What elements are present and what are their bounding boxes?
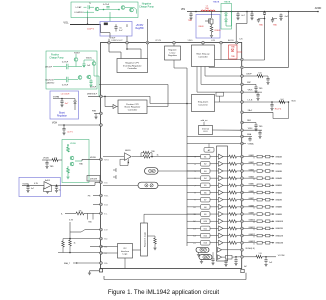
block: Negative CPV Inverting Regulator Controller	[117, 59, 148, 73]
svg-text:10: 10	[193, 207, 195, 209]
svg-text:Boost Regulator: Boost Regulator	[125, 106, 141, 109]
svg-text:L/CAP/DC: L/CAP/DC	[74, 11, 84, 14]
arrow vdd_int	[203, 122, 205, 126]
gamma row 7 resistor	[223, 198, 241, 201]
diode D1	[104, 23, 108, 25]
gamma row 10 pin	[241, 220, 244, 223]
wire stepup lx	[215, 44, 241, 59]
wire cp hook	[125, 8, 136, 14]
svg-text:VCOM: VCOM	[278, 255, 285, 257]
gamma row 7 filter C	[266, 198, 270, 201]
wire VGMA right	[244, 143, 247, 145]
capacitor Cosc1	[211, 252, 214, 265]
label L2 red	[61, 93, 70, 95]
resistor Rosc	[153, 238, 156, 250]
svg-text:L/R,G/P: L/R,G/P	[45, 67, 53, 69]
gamma row 13 pin	[241, 241, 244, 244]
label VINS	[187, 40, 193, 42]
gamma row 13 out label	[275, 242, 283, 245]
gamma row 2 out label	[275, 163, 282, 166]
pin VGH (left, y=125)	[100, 124, 103, 127]
gamma row 7 filter R	[257, 198, 266, 201]
gamma row 2 shunt tick	[253, 164, 255, 166]
DAC oval wide	[138, 182, 158, 188]
svg-text:0.47uF: 0.47uF	[62, 85, 69, 87]
box AP trim	[204, 144, 214, 153]
gamma buffer U2	[219, 161, 224, 166]
gamma row 4 out arrow	[270, 177, 274, 179]
blue box: main boost power stage	[196, 15, 220, 39]
gamma row 12 out arrow	[270, 235, 274, 237]
svg-text:Linear: Linear	[170, 51, 176, 54]
wire logic to reg	[133, 249, 141, 251]
svg-text:Boost: Boost	[59, 112, 65, 115]
capacitor C1	[114, 24, 117, 31]
label C11/C12 values	[74, 6, 84, 14]
gamma row 1 out label	[275, 155, 282, 158]
wire SA0 long	[63, 238, 100, 240]
gamma row 6 input box	[201, 190, 211, 195]
pin TST (left, y=253)	[100, 252, 103, 255]
gamma row 7 out label	[275, 198, 282, 201]
wire stepdown in	[103, 96, 192, 103]
gamma row 1 filter R	[257, 155, 266, 158]
pin EPAD (left bottom square)	[99, 269, 102, 272]
gamma row 10 wire to buffer	[210, 220, 218, 222]
gamma row 9 input box	[201, 212, 211, 217]
gamma row 1 output wire	[244, 156, 257, 158]
wire AVDD pin feed	[236, 12, 247, 42]
capacitor Cosc3	[234, 256, 237, 265]
svg-text:SA0: SA0	[104, 238, 107, 241]
svg-text:VIN: VIN	[181, 7, 185, 11]
svg-text:2n2: 2n2	[280, 99, 283, 101]
label VGMA	[248, 143, 255, 146]
gamma row 5 output wire	[244, 184, 257, 186]
gamma row 13 output wire	[244, 242, 257, 244]
label Rset red	[275, 108, 282, 111]
svg-text:GMA6B: GMA6B	[275, 191, 282, 194]
capacitor C61	[26, 185, 29, 193]
wire cp to VGL rail	[87, 11, 89, 25]
wire right pin 130 vdd_int	[244, 128, 263, 130]
gamma row 5 filter R	[257, 184, 266, 187]
label VDDA	[245, 247, 255, 250]
transistor Q51	[70, 156, 74, 160]
arrow stubs cp in	[84, 7, 87, 12]
pin PGND square	[241, 269, 244, 272]
label DRN/VGLP	[111, 40, 123, 42]
wire right pin 84 FB	[244, 82, 257, 84]
svg-text:Controller: Controller	[127, 67, 137, 70]
wire VGH to pin	[58, 124, 100, 126]
op-amp A403 VCOM	[44, 182, 52, 189]
svg-text:9: 9	[194, 200, 195, 202]
gamma row 8 input wire	[187, 206, 201, 208]
gamma row 12 filter R	[257, 234, 266, 237]
svg-text:G7: G7	[204, 200, 207, 202]
gamma row 3 label GMA3	[249, 168, 254, 171]
transistor Q11	[95, 7, 99, 11]
wire HVDD to pin	[82, 159, 100, 161]
svg-text:4u7: 4u7	[65, 103, 69, 105]
svg-text:Positive CPV: Positive CPV	[126, 103, 139, 106]
label TBD/B green	[224, 2, 231, 4]
gamma row 4 input box	[201, 176, 211, 181]
capacitor C34	[89, 79, 92, 87]
svg-text:1uF: 1uF	[87, 65, 91, 67]
label LX/BST	[155, 40, 161, 42]
gamma row 2 wire to buffer	[210, 163, 218, 165]
label 1uF vcom	[269, 262, 273, 264]
wire poscpv in	[104, 96, 113, 107]
gamma row 3 pin	[241, 170, 244, 173]
osc DAC oval B	[199, 255, 212, 260]
label 1SUP	[110, 38, 116, 40]
wire ground return	[104, 273, 246, 280]
svg-text:GMA5B: GMA5B	[275, 184, 282, 187]
wire i2c scl	[101, 252, 118, 254]
gamma buffer U5	[219, 183, 224, 188]
svg-text:TBD: TBD	[259, 25, 264, 27]
gamma row 13 pin number	[193, 243, 195, 245]
svg-text:10uF*2: 10uF*2	[87, 29, 95, 31]
gamma row 5 shunt tick	[253, 185, 255, 187]
resistor Rvcom	[256, 253, 262, 258]
svg-text:13: 13	[193, 228, 195, 230]
svg-text:15: 15	[193, 243, 195, 245]
capacitor C23	[257, 18, 265, 23]
block: Positive CPV Boost Regulator Controller	[118, 100, 147, 114]
gamma row 6 filter R	[257, 191, 266, 194]
svg-text:GMA10B: GMA10B	[275, 220, 283, 223]
caption Figure 1	[108, 289, 220, 296]
gamma row 3 input box	[201, 169, 211, 174]
label C21 4u7	[241, 15, 245, 17]
label 0u1 C25	[285, 16, 289, 18]
label 4u7 red C41	[65, 103, 69, 105]
block: Main Step-up Controller	[192, 45, 215, 67]
gamma row 3 wire to buffer	[210, 170, 218, 172]
label TBD/B blue	[213, 2, 220, 4]
svg-text:TBD: TBD	[188, 20, 193, 22]
svg-text:IL: IL	[61, 213, 64, 215]
svg-text:Negative: Negative	[168, 49, 177, 52]
gamma row 8 resistor	[223, 205, 241, 208]
gamma row 13 wire to buffer	[210, 242, 218, 244]
gamma row 10 filter R	[257, 220, 266, 223]
switch ILIM	[70, 230, 100, 232]
label TBD ref	[259, 126, 263, 128]
label 0.47uF c32	[62, 85, 69, 87]
capacitor C42 VGH	[62, 125, 65, 135]
wire stepdown out	[215, 101, 241, 103]
svg-text:Inverting Regulator: Inverting Regulator	[123, 64, 142, 67]
buffer poscpv	[113, 105, 117, 109]
svg-text:4u7: 4u7	[31, 188, 34, 190]
label VDDIN	[22, 183, 29, 185]
label 10uF red	[87, 29, 95, 31]
gamma row 2 resistor	[223, 162, 241, 165]
gamma row 9 pin	[241, 213, 244, 216]
wire stepup drv staircase 3	[201, 67, 241, 85]
label TBD mid	[79, 164, 84, 166]
wire vcom fb	[44, 185, 52, 191]
gamma row 6 out arrow	[270, 192, 274, 194]
transistor Q32	[78, 75, 82, 79]
gamma row 1 wire to buffer	[210, 156, 218, 158]
gamma row 10 output wire	[244, 220, 257, 222]
gamma row 4 out label	[275, 177, 282, 180]
block: Step-down Converter	[192, 95, 215, 112]
svg-text:G6: G6	[204, 192, 207, 194]
capacitor Cvddi	[258, 130, 261, 138]
svg-text:TBD: TBD	[259, 126, 263, 128]
label 1uF c33	[87, 65, 91, 67]
capacitor C33	[82, 60, 94, 67]
gamma buffer U12	[219, 233, 224, 238]
svg-text:GMA9B: GMA9B	[275, 213, 282, 216]
feedback loop rect	[273, 102, 289, 119]
svg-text:14: 14	[193, 236, 195, 238]
svg-text:VDD/C: VDD/C	[86, 58, 93, 60]
svg-text:GMA: GMA	[247, 133, 252, 136]
gamma row 3 out arrow	[270, 170, 274, 172]
pin right y=67.4	[241, 66, 244, 69]
svg-text:G12: G12	[203, 235, 207, 237]
transistor Q12	[121, 6, 125, 10]
gamma row 9 label GMA9	[249, 211, 254, 214]
gamma row 8 out label	[275, 206, 282, 209]
gamma row 11 pin	[241, 227, 244, 230]
svg-text:GMA8B: GMA8B	[275, 206, 282, 209]
pin VIN (top)	[173, 41, 176, 44]
gamma row 2 label GMA2	[249, 161, 254, 164]
blue box: VCOM buffer	[19, 177, 60, 196]
svg-text:GMA11B: GMA11B	[275, 227, 283, 230]
svg-text:vdd_int: vdd_int	[201, 119, 208, 122]
svg-text:7: 7	[194, 185, 195, 187]
wire cp2 out	[94, 76, 100, 96]
pin right y=84.4	[241, 83, 244, 86]
svg-text:0.47uF: 0.47uF	[62, 62, 69, 64]
svg-text:K5867: K5867	[74, 52, 81, 54]
pin LXB (top)	[220, 41, 223, 44]
svg-text:0.47uF: 0.47uF	[103, 4, 110, 6]
svg-text:TBD/B: TBD/B	[213, 2, 220, 4]
gamma row 4 label GMA4	[249, 176, 254, 179]
gamma buffer U4	[219, 176, 224, 181]
gamma row 10 input box	[201, 219, 211, 224]
ground osc A	[197, 252, 200, 256]
label 1uF C62	[58, 190, 60, 192]
gamma row 2 pin number	[194, 164, 195, 166]
gamma row 2 input box	[201, 161, 211, 166]
wire SA1 stub	[90, 246, 100, 248]
svg-text:Regulator: Regulator	[57, 115, 67, 118]
gamma row 12 input wire	[187, 235, 201, 237]
svg-text:VGL: VGL	[63, 21, 69, 25]
svg-text:G13: G13	[203, 243, 207, 245]
wire stepup in1	[202, 43, 204, 46]
gamma row 1 pin number	[194, 157, 195, 159]
DAC oval VCOM	[145, 168, 159, 175]
wire box2 to pin VGL	[108, 39, 110, 41]
resistor Rstrap2	[62, 239, 65, 253]
svg-text:SCL: SCL	[104, 213, 108, 215]
svg-text:HVDD: HVDD	[104, 159, 110, 161]
svg-text:GMA4B: GMA4B	[275, 177, 282, 180]
comp osc B out	[222, 255, 241, 259]
red network: OVP divider	[229, 45, 238, 59]
gamma row 5 out arrow	[270, 184, 274, 186]
svg-text:GMA13B: GMA13B	[275, 242, 283, 245]
svg-text:47k: 47k	[78, 210, 81, 212]
gamma row 13 input wire	[187, 242, 201, 244]
svg-text:0.47uF: 0.47uF	[90, 87, 97, 89]
capacitor Cgma	[248, 137, 251, 142]
svg-text:12: 12	[193, 221, 195, 223]
label VDD/C	[86, 58, 93, 60]
svg-text:TBD: TBD	[79, 164, 84, 166]
svg-text:TST: TST	[104, 253, 108, 255]
gamma row 6 resistor	[223, 191, 241, 194]
svg-text:RSEN: RSEN	[215, 30, 221, 32]
wire oval2 left	[103, 184, 138, 186]
gamma row 7 out arrow	[270, 199, 274, 201]
jumper scl	[113, 175, 116, 179]
svg-text:4u7: 4u7	[119, 30, 123, 32]
gamma row 8 wire to buffer	[210, 206, 218, 208]
wire stepup drv staircase 1	[209, 66, 241, 69]
wire vgl step	[101, 24, 110, 38]
svg-text:Main Step-up: Main Step-up	[196, 53, 210, 56]
wire osc A out	[222, 249, 241, 251]
svg-text:TBD: TBD	[50, 166, 55, 168]
svg-text:UVDD/R: UVDD/R	[90, 179, 98, 181]
ground R52	[66, 177, 69, 179]
gamma row 12 pin number	[193, 236, 195, 238]
gamma buffer U7	[219, 197, 224, 202]
label 125	[239, 39, 242, 41]
label UVDD left	[43, 158, 50, 160]
pin DRN/VGLP (left, y=96.4)	[100, 95, 103, 98]
wire neg lin in	[173, 44, 175, 46]
gamma row 11 filter R	[257, 227, 266, 230]
svg-text:VDD: VDD	[104, 182, 108, 184]
svg-text:L2 0.8uH: L2 0.8uH	[61, 93, 70, 95]
gamma row 6 wire to buffer	[210, 192, 218, 194]
svg-text:Controller: Controller	[198, 56, 208, 59]
gamma buffer U10	[219, 219, 224, 224]
gamma row 6 pin	[241, 191, 244, 194]
label LXB	[211, 40, 216, 42]
gamma row 2 out arrow	[270, 163, 274, 165]
diode D41	[74, 99, 77, 111]
label TBD red C23	[259, 25, 264, 27]
gamma row 8 filter R	[257, 206, 266, 209]
wire uvdd left rail	[42, 159, 52, 161]
wire gnd rail bl	[58, 246, 100, 253]
pin SCL (left, y=213.4)	[100, 212, 103, 215]
svg-text:FBP: FBP	[247, 82, 251, 84]
svg-text:4.3V: 4.3V	[34, 183, 39, 185]
green box: UVDD follower	[62, 140, 89, 183]
gamma row 11 input box	[201, 226, 211, 231]
gamma row 5 resistor	[223, 184, 241, 187]
label UVDD sense	[90, 179, 98, 181]
wire negcpv in1	[109, 44, 121, 58]
svg-text:4u7: 4u7	[241, 15, 245, 17]
gamma row 11 out arrow	[270, 228, 274, 230]
gamma row 5 label GMA5	[249, 183, 254, 186]
pin SA1 (left, y=246.5)	[100, 245, 103, 248]
green box: Positive Charge Pump	[46, 51, 97, 89]
svg-text:G1: G1	[204, 157, 207, 159]
gamma row 1 pin	[241, 155, 244, 158]
svg-text:Rset*4: Rset*4	[275, 108, 282, 111]
wire GMA ref inside	[187, 136, 241, 138]
gamma row 5 input box	[201, 183, 211, 188]
label VGHM	[53, 97, 60, 99]
capacitor Cfb	[254, 84, 257, 92]
capacitor C20 at VIN	[189, 12, 192, 20]
ground fb	[46, 192, 49, 194]
gamma row 10 resistor	[223, 220, 241, 223]
svg-text:FBx2: FBx2	[248, 110, 252, 112]
gamma row 6 input wire	[187, 192, 201, 194]
svg-text:GMA3B: GMA3B	[275, 170, 282, 173]
gamma row 2 output wire	[244, 163, 257, 165]
gamma row 4 pin	[241, 177, 244, 180]
green box: Negative Charge Pump	[71, 2, 138, 18]
wire follower out	[75, 160, 82, 162]
svg-text:4u7*1: 4u7*1	[67, 132, 73, 134]
label Positive Charge Pump	[49, 54, 64, 60]
gamma row 11 out label	[275, 227, 283, 230]
osc DAC oval A	[196, 247, 209, 252]
gamma row 4 shunt tick	[253, 178, 255, 180]
transistor Q30	[74, 54, 78, 67]
gamma buffer U9	[219, 212, 224, 217]
pin right y=112.3	[241, 111, 244, 114]
pin ILIM (left, y=229.6)	[100, 228, 103, 231]
gamma row 7 pin	[241, 198, 244, 201]
svg-text:1 SUP: 1 SUP	[110, 38, 116, 40]
gamma row 2 input wire	[187, 163, 201, 165]
svg-text:1uF: 1uF	[269, 262, 273, 264]
wire poscpv right	[99, 85, 168, 107]
gamma row 9 output wire	[244, 213, 257, 215]
capacitor Cosc2	[224, 259, 227, 266]
wire VIN rail	[187, 11, 318, 13]
gamma buffer U13	[219, 240, 224, 245]
wire FSEL stub	[88, 196, 100, 198]
gamma row 13 label GMA13	[249, 240, 255, 243]
wire right pin 112 FB2	[244, 110, 274, 112]
gamma row 3 out label	[275, 170, 282, 173]
wire VGL rail	[70, 24, 101, 26]
capacitor C11	[87, 5, 95, 12]
gamma row 12 label GMA12	[249, 233, 255, 236]
svg-text:G8: G8	[204, 207, 207, 209]
ground EPAD	[88, 271, 100, 275]
wire vcom out	[262, 256, 276, 258]
label AZ pin	[244, 265, 247, 268]
gamma row 10 out label	[275, 220, 283, 223]
svg-text:UVDD: UVDD	[70, 143, 77, 145]
op-amp A1 gamma ref	[125, 149, 132, 160]
